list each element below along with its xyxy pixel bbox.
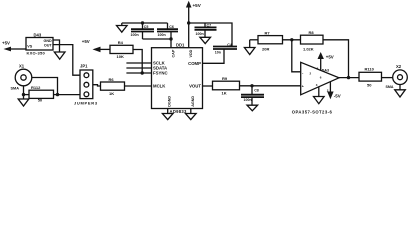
svg-text:GND: GND [43, 39, 52, 43]
junction (C8 node) [250, 84, 253, 87]
wire FSYNC stub [126, 72, 151, 74]
svg-text:DD1: DD1 [176, 42, 185, 47]
power flag +5V (VDD) [186, 1, 202, 48]
node (X1/R112/JP1) [56, 93, 59, 96]
svg-text:X1: X1 [19, 63, 25, 68]
ground (op-amp) [314, 97, 325, 104]
svg-text:R9: R9 [222, 76, 228, 81]
svg-text:50: 50 [367, 82, 372, 87]
svg-text:DGND: DGND [168, 96, 172, 107]
svg-text:MCLK: MCLK [153, 84, 166, 89]
wire feedback node to op-amp -input [292, 40, 301, 72]
svg-text:R7: R7 [265, 30, 271, 35]
junction (output node) [347, 76, 350, 79]
svg-text:FSYNC: FSYNC [153, 71, 168, 76]
svg-text:1K: 1K [109, 91, 114, 96]
wire SCLK stub [126, 62, 151, 64]
svg-text:50: 50 [38, 98, 43, 103]
svg-text:+5V: +5V [82, 39, 90, 44]
capacitor C5 100n [131, 23, 155, 39]
svg-text:+5V: +5V [326, 54, 334, 59]
wire X1 shield to ground [23, 86, 25, 99]
wire DGND pin [167, 109, 169, 114]
ground (C7) [200, 37, 211, 43]
svg-text:C8: C8 [254, 89, 259, 93]
resistor R4 10K [110, 40, 133, 59]
svg-text:C6: C6 [169, 25, 174, 29]
svg-text:C7: C7 [207, 23, 212, 27]
ground (C8) [247, 105, 258, 111]
svg-text:R8: R8 [309, 30, 315, 35]
junction on FSYNC [141, 71, 144, 74]
ground (oscillator) [54, 52, 65, 59]
svg-text:100n: 100n [244, 98, 252, 102]
resistor R6 1K [101, 77, 125, 96]
wire SDATA stub [126, 67, 151, 69]
svg-text:OPA357-SOT23-6: OPA357-SOT23-6 [292, 109, 333, 114]
wire oscillator GND pin [53, 40, 60, 52]
wire AGND pin [190, 109, 192, 114]
wire JP1 pin2 to R6 [93, 85, 101, 86]
svg-text:+: + [302, 85, 304, 89]
power flag +5V (op-amp V+) [318, 52, 334, 71]
svg-text:100n: 100n [131, 33, 139, 37]
ground (decoupling rail) [117, 23, 128, 32]
svg-text:R110: R110 [365, 67, 375, 72]
ground (R7) [244, 40, 255, 55]
svg-text:-5V: -5V [334, 94, 341, 99]
svg-text:C4: C4 [227, 43, 232, 47]
svg-text:R6: R6 [109, 77, 115, 82]
IC DD1 AD9833 [152, 42, 203, 114]
svg-text:SMA: SMA [11, 86, 20, 90]
wire R9 to op-amp +input [240, 85, 301, 87]
ground (AGND) [186, 114, 197, 120]
junction (C5 top) [141, 21, 144, 24]
capacitor C7 100n [195, 23, 217, 38]
svg-text:VS: VS [27, 44, 32, 48]
wire op-amp V- pin [318, 87, 320, 97]
svg-text:VOUT: VOUT [189, 84, 201, 89]
wire R110 to X2 [382, 77, 393, 79]
capacitor C6 100n [157, 23, 178, 39]
wire node to JP1 pin3 [58, 94, 81, 96]
resistor R9 1K [213, 76, 240, 96]
svg-text:OUT: OUT [44, 43, 53, 47]
svg-text:10n: 10n [215, 51, 221, 55]
svg-text:COMP: COMP [188, 61, 201, 66]
op-amp DA3 OPA357 [292, 62, 339, 114]
power flag +5V (FSYNC pullup) [82, 39, 110, 52]
svg-text:X2: X2 [396, 64, 402, 69]
svg-text:KXO-350: KXO-350 [27, 51, 46, 56]
svg-text:100n: 100n [196, 32, 204, 36]
wire R6 to MCLK pin [125, 85, 152, 87]
resistor R8 1.02K [301, 30, 324, 51]
capacitor C8 100n [241, 86, 264, 105]
junction (feedback node) [290, 38, 293, 41]
svg-text:SMA: SMA [386, 85, 394, 89]
wire VOUT to R9 [203, 85, 213, 87]
svg-text:+5V: +5V [193, 3, 202, 8]
wire oscillator OUT to JP1 pin1 [53, 45, 80, 76]
svg-text:C5: C5 [144, 25, 149, 29]
connector X1 SMA [11, 63, 32, 90]
junction (R112 left) [22, 93, 25, 96]
wire R8 to output node [323, 40, 349, 78]
ground (X2) [395, 90, 406, 97]
svg-text:R4: R4 [118, 40, 124, 45]
wire R4 to FSYNC [133, 50, 142, 74]
svg-text:+5V: +5V [2, 40, 10, 45]
wire X2 shield to ground [399, 85, 401, 90]
junction (VDD rail) [187, 21, 190, 24]
svg-text:JP1: JP1 [80, 64, 88, 69]
svg-text:R112: R112 [31, 85, 41, 90]
wire VDD rail to C4 [189, 23, 232, 47]
wire X1 signal to node [32, 78, 58, 95]
svg-text:1K: 1K [222, 91, 227, 96]
power flag +5V (oscillator supply) [2, 40, 26, 51]
svg-text:AGND: AGND [191, 96, 195, 107]
wire C5 to CAP pin [143, 39, 172, 48]
connector X2 SMA [386, 64, 408, 89]
wire ground rail [122, 22, 168, 24]
resistor R110 50 [359, 67, 382, 88]
svg-text:1.02K: 1.02K [303, 46, 314, 51]
svg-text:DA3: DA3 [322, 68, 329, 72]
svg-text:10K: 10K [117, 54, 124, 59]
resistor R7 20R [250, 30, 301, 51]
resistor R112 50 [24, 85, 58, 103]
svg-text:CAP: CAP [172, 49, 176, 57]
svg-text:D43: D43 [34, 33, 42, 38]
oscillator D43 KXO-350 [26, 33, 53, 56]
ground (DGND) [162, 114, 173, 120]
header JP1 JUMPER3 [74, 64, 98, 106]
ground (X1) [18, 99, 29, 106]
capacitor C4 10n [203, 43, 238, 64]
svg-text:20R: 20R [262, 46, 269, 51]
svg-text:JUMPER3: JUMPER3 [74, 101, 98, 106]
junction (C6 bottom / CAP) [169, 37, 172, 40]
svg-text:100n: 100n [158, 33, 166, 37]
wire op-amp output [339, 77, 359, 79]
svg-text:VDD: VDD [189, 49, 193, 57]
power flag -5V (op-amp pin 6) [327, 82, 341, 100]
